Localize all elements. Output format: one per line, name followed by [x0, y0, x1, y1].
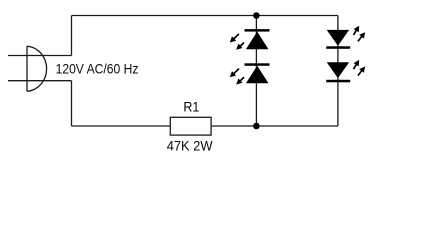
label 120V AC/60 Hz: [56, 60, 139, 76]
wire bottom bus left of R1: [72, 125, 171, 127]
junction node bottom: [253, 123, 260, 130]
svg-text:47K 2W: 47K 2W: [167, 138, 213, 153]
resistor R1: [170, 117, 211, 135]
wire top bus: [72, 15, 338, 17]
LED D3 (right branch upper): [326, 26, 365, 49]
wire left vertical bottom: [71, 81, 73, 126]
wire left LED branch vertical: [255, 16, 257, 127]
AC plug: [27, 46, 47, 91]
svg-text:R1: R1: [183, 100, 199, 115]
wire left vertical top: [71, 16, 73, 56]
label 47K 2W: [167, 138, 213, 153]
wire plug bottom lead: [8, 80, 72, 82]
wire junction to bottom right corner: [256, 125, 338, 127]
LED D4 (right branch lower): [326, 60, 365, 82]
label R1: [183, 100, 199, 115]
LED D1 (left branch upper): [230, 29, 270, 50]
LED D2 (left branch lower): [230, 63, 270, 84]
wire right LED branch vertical: [337, 16, 339, 127]
wire R1 to junction: [211, 125, 256, 127]
junction node top: [253, 12, 260, 19]
wire plug top lead: [8, 55, 72, 57]
svg-text:120V AC/60 Hz: 120V AC/60 Hz: [56, 60, 139, 76]
